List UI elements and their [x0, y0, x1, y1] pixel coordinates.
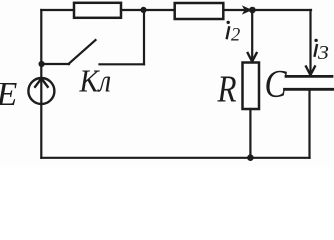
label i2: [227, 21, 230, 39]
arrowhead i2 down: [248, 53, 257, 62]
wire switch left stub: [42, 63, 69, 65]
wire bottom: [41, 157, 309, 159]
wire left vertical through source: [40, 10, 42, 158]
svg-text:Кл: Кл: [79, 63, 112, 99]
svg-text:E: E: [0, 76, 18, 113]
source E arrowhead: [35, 78, 48, 86]
arrowhead current i1 right (top wire): [242, 5, 253, 14]
svg-text:2: 2: [231, 25, 240, 45]
resistor R2 (top right box): [175, 3, 224, 19]
node switch junction dot: [39, 61, 45, 67]
wire between R1 and node A: [121, 9, 175, 11]
wire R2 to node B: [224, 9, 311, 11]
resistor R1 (top left box): [74, 3, 121, 18]
switch Кл fixed contact: [100, 63, 145, 65]
label i3: [314, 39, 317, 57]
capacitor C bottom plate: [285, 88, 334, 91]
wire R to bottom: [249, 109, 251, 158]
node B junction dot: [249, 7, 256, 14]
svg-text:C: C: [265, 62, 288, 105]
arrowhead i3 down: [306, 67, 315, 76]
capacitor C top plate: [286, 75, 332, 78]
wire top right corner down to C: [309, 10, 311, 74]
wire C to bottom corner: [308, 89, 310, 158]
resistor R box: [243, 63, 260, 110]
svg-text:R: R: [217, 67, 237, 110]
wire top-left segment: [41, 9, 74, 11]
wire branch node B to R: [251, 10, 253, 60]
source E circle U1: [28, 78, 54, 104]
wire switch to node A: [143, 10, 145, 64]
svg-text:3: 3: [317, 43, 329, 64]
switch Кл blade: [69, 40, 96, 64]
node bottom junction dot: [247, 154, 254, 161]
node A junction dot: [140, 7, 146, 13]
